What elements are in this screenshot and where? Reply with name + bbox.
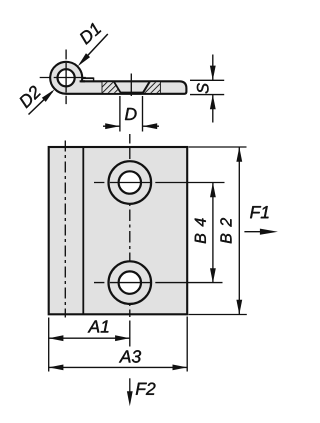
B4 dimension line xyxy=(212,183,214,284)
right hatch block xyxy=(143,82,161,93)
S top arrow xyxy=(212,55,214,81)
upper hole crosshair xyxy=(94,182,152,184)
lower hole crosshair xyxy=(94,282,152,284)
label F2 xyxy=(136,383,156,395)
label D1 xyxy=(80,23,101,45)
countersink left slant xyxy=(114,81,121,93)
label B2 xyxy=(220,218,231,243)
countersink bore transition edge xyxy=(120,91,143,93)
A extension line left xyxy=(48,318,50,372)
D extension lines xyxy=(119,96,121,132)
A extension line centre xyxy=(129,321,131,347)
B2 extension lines xyxy=(189,146,247,148)
upper hole outer xyxy=(109,161,152,204)
label D2 xyxy=(20,86,41,109)
lower hole outer xyxy=(109,261,152,304)
bar top edge under step xyxy=(80,80,85,82)
hinge knuckle edge line xyxy=(82,147,84,314)
S bottom arrow xyxy=(212,95,214,123)
label A3 xyxy=(119,350,141,362)
B2 dimension line xyxy=(238,147,240,315)
eye junction step line xyxy=(82,77,94,79)
A1 dimension line xyxy=(49,337,130,339)
upper hole bore xyxy=(119,171,141,193)
force arrow F2 xyxy=(129,378,131,393)
hole axis center line xyxy=(129,134,131,317)
lower hole extension to B4 xyxy=(155,282,222,284)
label B4 xyxy=(195,218,206,243)
plate outline (plan view) xyxy=(49,147,188,314)
A3 dimension line xyxy=(49,366,188,368)
D dimension arrows xyxy=(103,125,120,127)
eye horizontal center line xyxy=(40,77,86,79)
upper hole extension to B4 xyxy=(155,182,224,184)
label F1 xyxy=(250,206,268,218)
eye vertical center line xyxy=(65,50,67,105)
A extension line right xyxy=(186,317,188,372)
countersink center line xyxy=(130,74,132,97)
hinge axis center line xyxy=(64,141,66,318)
force arrow F1 xyxy=(244,231,262,233)
label S xyxy=(197,83,209,93)
label D xyxy=(125,108,137,120)
lower hole bore xyxy=(119,271,141,293)
left hatch block xyxy=(102,82,121,93)
leader D1 xyxy=(80,34,108,64)
leader D2 xyxy=(29,91,53,114)
countersink right slant xyxy=(143,81,150,93)
S extension lines xyxy=(190,79,224,81)
label A1 xyxy=(88,320,109,332)
section bar outline (hinge leaf cross-section) xyxy=(50,62,186,94)
hinge eye bore xyxy=(58,69,75,86)
